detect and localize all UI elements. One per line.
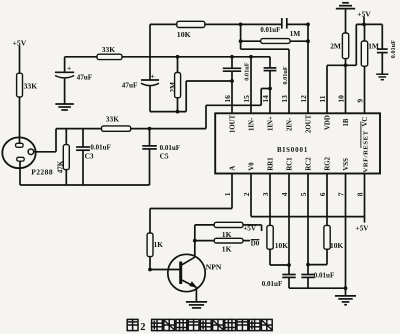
svg-text:1K: 1K xyxy=(154,241,164,249)
svg-text:15: 15 xyxy=(242,95,251,103)
svg-text:D0: D0 xyxy=(251,240,260,248)
svg-text:33K: 33K xyxy=(102,45,115,54)
svg-text:+: + xyxy=(151,71,155,80)
svg-text:0.01uF: 0.01uF xyxy=(262,280,282,288)
svg-text:33K: 33K xyxy=(24,82,38,91)
svg-text:C5: C5 xyxy=(160,151,169,160)
svg-text:NPN: NPN xyxy=(206,263,222,272)
svg-text:0.01uF: 0.01uF xyxy=(244,62,251,81)
svg-text:47K: 47K xyxy=(57,160,65,173)
svg-text:BIS0001: BIS0001 xyxy=(277,147,308,154)
svg-text:2M: 2M xyxy=(168,82,177,93)
svg-text:VDD: VDD xyxy=(325,115,332,130)
svg-text:VSS: VSS xyxy=(343,158,350,171)
svg-text:8: 8 xyxy=(355,192,364,196)
svg-text:1M: 1M xyxy=(290,29,301,38)
svg-text:47uF: 47uF xyxy=(122,82,138,90)
svg-text:RG2: RG2 xyxy=(325,156,332,170)
svg-text:+5V: +5V xyxy=(243,224,257,232)
svg-text:11: 11 xyxy=(318,95,327,102)
svg-text:V0: V0 xyxy=(249,162,256,171)
svg-text:9: 9 xyxy=(355,99,364,103)
svg-text:1K: 1K xyxy=(222,230,232,239)
svg-text:RC2: RC2 xyxy=(306,157,313,171)
svg-text:3: 3 xyxy=(261,192,270,196)
svg-text:1IN+: 1IN+ xyxy=(268,116,275,131)
svg-text:6: 6 xyxy=(318,192,327,196)
svg-text:2OUT: 2OUT xyxy=(306,114,313,133)
svg-text:0.01uF: 0.01uF xyxy=(390,40,397,59)
svg-text:47uF: 47uF xyxy=(77,74,93,82)
svg-text:2: 2 xyxy=(242,192,251,196)
svg-text:2: 2 xyxy=(140,322,145,333)
svg-text:VC: VC xyxy=(362,117,369,127)
svg-text:VRF/RESET: VRF/RESET xyxy=(363,130,370,172)
svg-text:1: 1 xyxy=(223,192,232,196)
svg-text:2IN-: 2IN- xyxy=(287,117,294,131)
svg-text:14: 14 xyxy=(261,95,270,103)
svg-text:0.01uF: 0.01uF xyxy=(260,27,280,34)
svg-text:+5V: +5V xyxy=(356,225,370,233)
svg-text:16: 16 xyxy=(223,95,232,103)
svg-text:+5V: +5V xyxy=(357,9,371,18)
svg-text:10K: 10K xyxy=(330,241,343,250)
svg-text:C3: C3 xyxy=(85,152,94,161)
svg-text:4: 4 xyxy=(280,192,289,196)
svg-text:0.01uF: 0.01uF xyxy=(282,66,289,85)
svg-text:2M: 2M xyxy=(330,41,341,50)
svg-text:7: 7 xyxy=(336,192,345,196)
svg-text:13: 13 xyxy=(280,95,289,103)
svg-text:12: 12 xyxy=(299,95,308,103)
svg-text:10K: 10K xyxy=(177,30,191,39)
svg-text:0.01uF: 0.01uF xyxy=(90,144,110,152)
svg-text:RR1: RR1 xyxy=(268,157,275,171)
svg-text:10K: 10K xyxy=(275,241,288,250)
svg-text:1B: 1B xyxy=(343,118,350,126)
svg-text:10: 10 xyxy=(336,95,345,103)
svg-text:A: A xyxy=(230,166,237,171)
svg-text:5: 5 xyxy=(299,192,308,196)
svg-text:1OUT: 1OUT xyxy=(230,114,237,133)
svg-text:1M: 1M xyxy=(368,41,379,50)
svg-text:1K: 1K xyxy=(222,244,232,253)
svg-text:33K: 33K xyxy=(106,115,119,124)
svg-text:0.01uF: 0.01uF xyxy=(314,272,334,280)
svg-text:+5V: +5V xyxy=(13,38,27,47)
svg-text:+: + xyxy=(67,64,71,73)
svg-text:RC1: RC1 xyxy=(287,157,294,171)
svg-text:1IN-: 1IN- xyxy=(249,117,256,131)
svg-text:P2288: P2288 xyxy=(31,168,53,177)
